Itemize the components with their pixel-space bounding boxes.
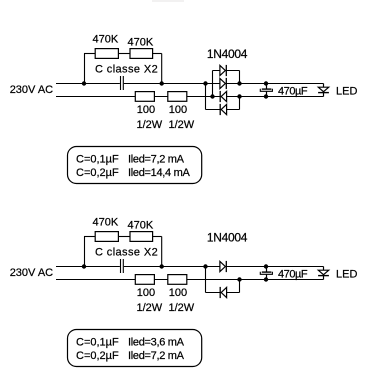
svg-text:1N4004: 1N4004: [207, 47, 248, 61]
resistor R7 100 1/2W (bottom circuit): [135, 275, 154, 285]
wire: bridge right lower vertical: [239, 97, 241, 110]
wire: bridge row4 horizontal: [206, 109, 240, 111]
label C=0,2uF Iled=14,4 mA: [76, 167, 190, 179]
svg-text:470K: 470K: [128, 220, 154, 232]
wire: top AC rail right segment (bottom circuit): [124, 266, 324, 268]
wire: top AC rail left segment: [56, 83, 120, 85]
wire: anti-parallel loop left vertical: [205, 267, 207, 293]
wire: bridge row1 horizontal: [213, 70, 240, 72]
wire: bottom AC rail: [56, 96, 324, 98]
wire: anti-parallel loop right vertical: [239, 280, 241, 293]
svg-text:470µF: 470µF: [278, 269, 308, 281]
svg-text:470µF: 470µF: [278, 86, 308, 98]
svg-text:230V AC: 230V AC: [10, 84, 53, 96]
resistor R6 470K (bottom circuit): [130, 232, 153, 242]
wire: branch middle segment: [118, 53, 130, 55]
svg-text:470K: 470K: [128, 37, 154, 49]
wire: bridge left outer vertical: [205, 84, 207, 110]
wire: 470K branch left vertical (bottom circuit): [84, 237, 86, 267]
wire: branch top right segment (bottom circuit): [153, 236, 162, 238]
resistor R4 100 1/2W (top circuit): [168, 92, 187, 102]
wire: anti-parallel loop bottom horizontal: [206, 292, 240, 294]
LED (top circuit, cathode down): [318, 84, 329, 97]
wire: bridge inner-left vertical: [212, 71, 214, 97]
wire: bridge right upper vertical: [239, 71, 241, 84]
svg-text:470K: 470K: [93, 217, 119, 229]
diode D5 1N4004 (on top rail, points right): [220, 261, 226, 272]
svg-text:C=0,2µF: C=0,2µF: [76, 167, 119, 179]
svg-text:C=0,1µF: C=0,1µF: [76, 337, 119, 349]
svg-text:230V AC: 230V AC: [10, 267, 53, 279]
cropped text remnant top edge: [152, 0, 184, 2]
note box (top circuit results): [68, 147, 202, 184]
wire: branch top left segment: [84, 53, 96, 55]
wire: branch middle segment (bottom circuit): [118, 236, 130, 238]
diode D1 1N4004 (bridge row1, points right): [220, 65, 226, 76]
LED (bottom circuit, cathode down): [318, 267, 329, 280]
wire: 470K branch right vertical: [161, 54, 163, 84]
svg-text:1/2W: 1/2W: [169, 302, 195, 314]
svg-text:C=0,2µF: C=0,2µF: [76, 350, 119, 362]
resistor R8 100 1/2W (bottom circuit): [168, 275, 187, 285]
diode D3 1N4004 (bridge row3 on bottom rail, points left): [220, 91, 226, 102]
capacitor 470uF (bottom circuit): [260, 267, 272, 280]
svg-text:1/2W: 1/2W: [137, 119, 163, 131]
svg-text:1N4004: 1N4004: [207, 231, 248, 245]
label C=0,1uF Iled=3,6 mA: [76, 337, 185, 349]
wire: 470K branch left vertical: [84, 54, 86, 84]
capacitor C classe X2 (bottom circuit) plates: [121, 259, 124, 273]
wire: top AC rail right segment: [124, 83, 324, 85]
resistor R2 470K (top circuit): [130, 49, 153, 59]
svg-text:C classe X2: C classe X2: [95, 247, 158, 259]
label C=0,1uF Iled=7,2 mA: [76, 154, 185, 166]
svg-text:C=0,1µF: C=0,1µF: [76, 154, 119, 166]
svg-text:LED: LED: [336, 269, 357, 281]
resistor R5 470K (bottom circuit): [95, 232, 118, 242]
svg-text:LED: LED: [336, 86, 357, 98]
wire: bottom AC rail (bottom circuit): [56, 279, 324, 281]
note box (bottom circuit results): [68, 330, 202, 367]
label C=0,2uF Iled=7,2 mA: [76, 350, 185, 362]
svg-text:470K: 470K: [93, 34, 119, 46]
wire: branch top right segment: [153, 53, 162, 55]
svg-text:Iled=7,2 mA: Iled=7,2 mA: [128, 350, 185, 362]
capacitor C classe X2 (top circuit) plates: [121, 76, 124, 90]
svg-text:100: 100: [137, 287, 155, 299]
svg-text:100: 100: [169, 104, 187, 116]
wire: branch top left segment (bottom circuit): [84, 236, 96, 238]
capacitor 470uF (top circuit): [260, 84, 272, 97]
diode D2 1N4004 (bridge row2 on top rail, points right): [220, 78, 226, 89]
diode D4 1N4004 (bridge row4, points left): [220, 104, 226, 115]
svg-text:100: 100: [169, 287, 187, 299]
svg-text:Iled=14,4 mA: Iled=14,4 mA: [128, 167, 190, 179]
wire: 470K branch right vertical (bottom circuit): [161, 237, 163, 267]
wire: top AC rail left segment (bottom circuit): [56, 266, 120, 268]
diode D6 1N4004 (anti-parallel loop, points left): [220, 287, 226, 298]
svg-text:1/2W: 1/2W: [137, 302, 163, 314]
svg-text:100: 100: [137, 104, 155, 116]
resistor R1 470K (top circuit): [95, 49, 118, 59]
svg-text:1/2W: 1/2W: [169, 119, 195, 131]
svg-text:Iled=3,6 mA: Iled=3,6 mA: [128, 337, 185, 349]
svg-text:C classe X2: C classe X2: [95, 64, 158, 76]
node: junction dots (top circuit): [82, 81, 268, 98]
node: junction dots (bottom circuit): [82, 264, 268, 281]
resistor R3 100 1/2W (top circuit): [135, 92, 154, 102]
svg-text:Iled=7,2 mA: Iled=7,2 mA: [128, 154, 185, 166]
